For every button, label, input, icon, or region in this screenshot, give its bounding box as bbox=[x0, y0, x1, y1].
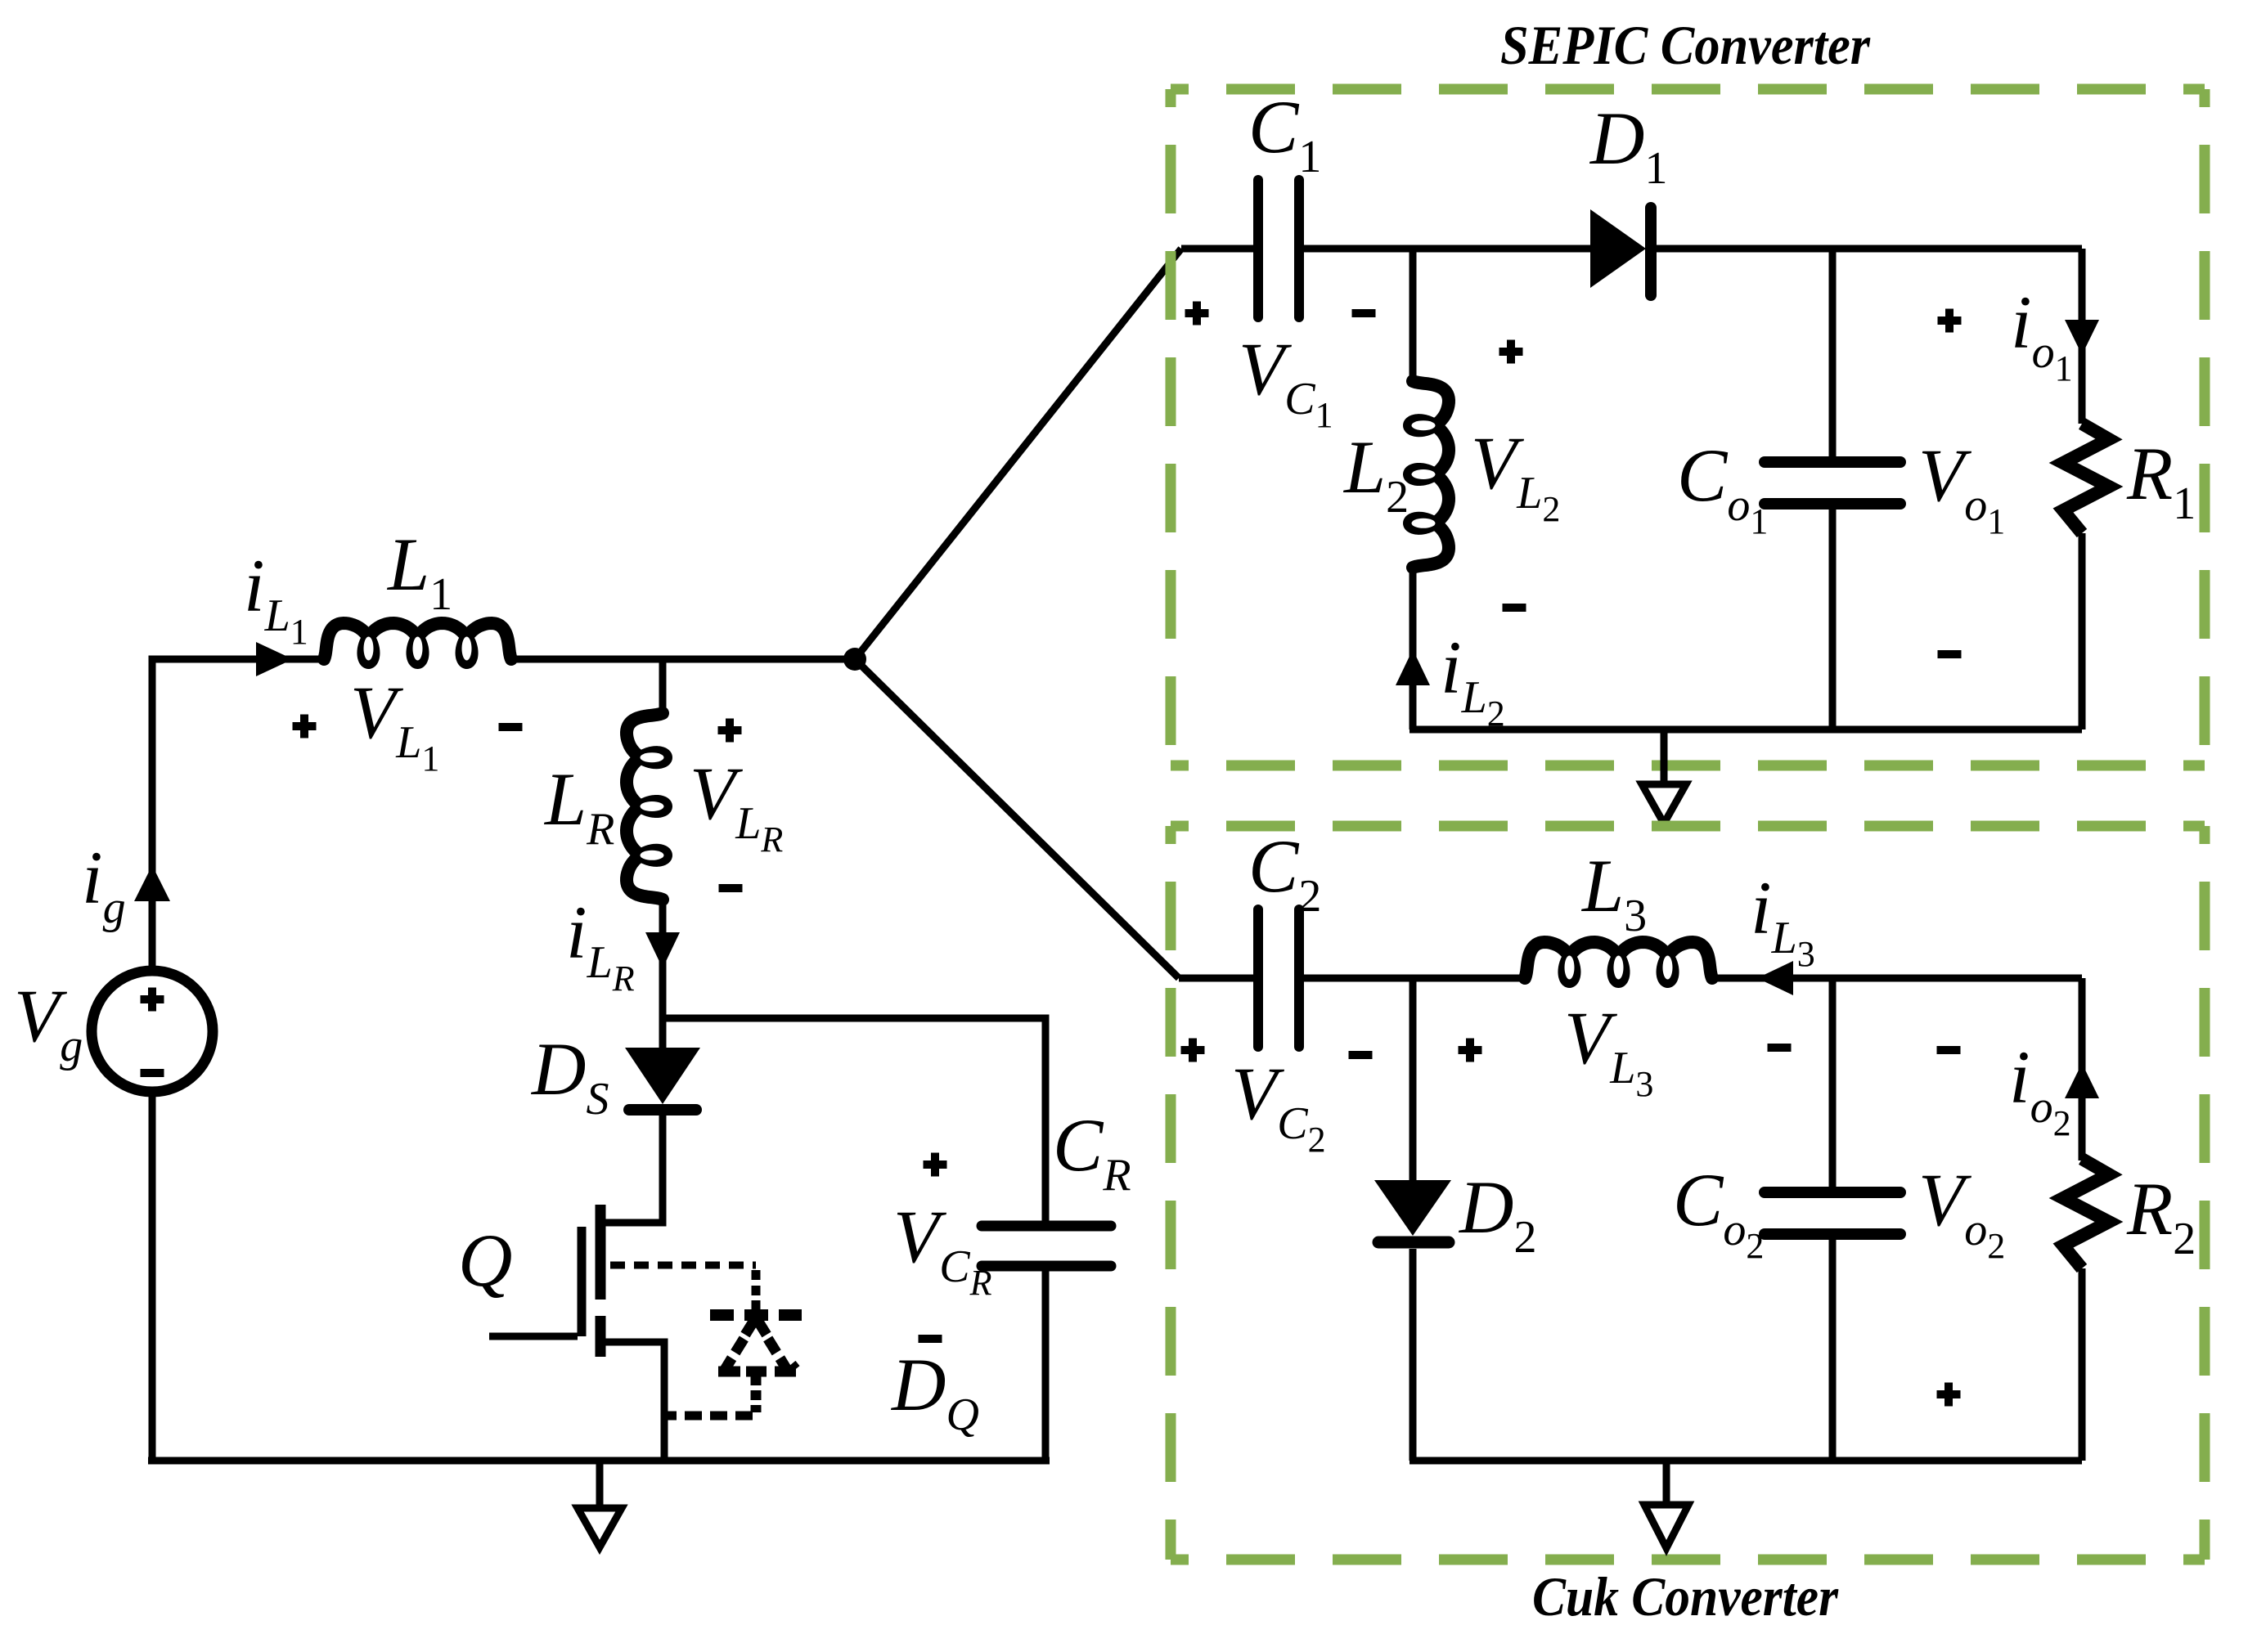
wire D2 branch upper bbox=[1409, 978, 1417, 1180]
resistor R2 bbox=[2063, 1159, 2109, 1268]
plus mark VL2 bbox=[1499, 348, 1523, 356]
ground symbol Cuk stub bbox=[1663, 1461, 1670, 1502]
diode D2 cathode bar bbox=[1378, 1237, 1449, 1249]
svg-text:Cuk Converter: Cuk Converter bbox=[1532, 1565, 1838, 1627]
wire right rail below R2 bbox=[2079, 1268, 2086, 1461]
plus mark VCR bbox=[924, 1160, 947, 1169]
current arrow iL1 bbox=[256, 642, 293, 676]
wire diagonal junction to SEPIC bbox=[855, 249, 1181, 659]
voltage source Vg symbol bbox=[92, 971, 213, 1092]
body diode DQ dashed gate link bbox=[610, 1262, 756, 1269]
svg-text:DS: DS bbox=[530, 1027, 609, 1125]
svg-text:VC2: VC2 bbox=[1231, 1052, 1326, 1160]
capacitor C1 left plate bbox=[1253, 180, 1263, 317]
svg-text:D2: D2 bbox=[1458, 1165, 1536, 1263]
Vg plus polarity mark bbox=[141, 995, 164, 1003]
minus mark VL2 bbox=[1503, 604, 1526, 612]
body diode DQ dashed triangle base bbox=[718, 1367, 740, 1377]
capacitor C2 right plate bbox=[1294, 909, 1304, 1047]
inductor L2 bbox=[1409, 381, 1449, 568]
capacitor CR top plate bbox=[982, 1221, 1111, 1232]
svg-text:Co1: Co1 bbox=[1677, 433, 1768, 541]
svg-text:iLR: iLR bbox=[566, 891, 635, 999]
diode DS triangle bbox=[625, 1048, 700, 1104]
svg-text:L2: L2 bbox=[1342, 425, 1409, 523]
wire Cuk bottom bbox=[1409, 1457, 2082, 1465]
capacitor C2 left plate bbox=[1253, 909, 1263, 1047]
wire L3 to right rail bbox=[1712, 975, 2082, 982]
wire CR to bottom rail bbox=[1042, 1271, 1050, 1461]
capacitor CR bottom plate bbox=[982, 1261, 1111, 1272]
current arrow iL3 bbox=[1757, 961, 1793, 995]
svg-text:Co2: Co2 bbox=[1673, 1158, 1764, 1266]
body diode DQ dashed triangle left leg bbox=[735, 1339, 744, 1353]
wire D2 to bottom bbox=[1409, 1249, 1417, 1461]
transistor Q gate bar bbox=[578, 1227, 587, 1336]
ground symbol SEPIC triangle bbox=[1642, 784, 1686, 824]
svg-text:io2: io2 bbox=[2009, 1035, 2071, 1143]
wire Co1 upper bbox=[1829, 249, 1837, 456]
wire SEPIC entry to C1 bbox=[1181, 245, 1255, 253]
ground symbol Cuk triangle bbox=[1644, 1505, 1688, 1548]
svg-text:iL2: iL2 bbox=[1441, 626, 1505, 734]
wire C1 to D1 bbox=[1302, 245, 1590, 253]
transistor Q channel bar upper bbox=[596, 1205, 606, 1300]
svg-text:R2: R2 bbox=[2126, 1167, 2196, 1264]
plus mark VLR bbox=[718, 726, 742, 734]
wire DS to MOSFET drain bbox=[605, 1116, 663, 1223]
wire SEPIC bottom corner bbox=[1409, 726, 1417, 729]
resistor R1 bbox=[2063, 424, 2109, 533]
svg-text:Q: Q bbox=[458, 1219, 512, 1302]
wire D1 to right rail bbox=[1656, 245, 2082, 253]
svg-text:Vg: Vg bbox=[14, 974, 83, 1071]
svg-text:L1: L1 bbox=[386, 523, 452, 620]
plus mark VL3 bbox=[1459, 1046, 1482, 1054]
svg-text:io1: io1 bbox=[2011, 281, 2073, 388]
capacitor Co1 top plate bbox=[1765, 456, 1900, 468]
wire right rail io1 bbox=[2079, 249, 2086, 424]
transistor Q gate lead bbox=[489, 1333, 578, 1340]
wire Co2 upper bbox=[1829, 978, 1837, 1187]
wire top from source corner bbox=[152, 659, 327, 662]
current arrow io2 bbox=[2065, 1063, 2099, 1098]
svg-text:R1: R1 bbox=[2126, 432, 2196, 529]
svg-text:Vo2: Vo2 bbox=[1918, 1158, 2005, 1266]
capacitor Co1 bottom plate bbox=[1765, 498, 1900, 510]
diode D2 triangle bbox=[1374, 1180, 1451, 1236]
Vg minus polarity mark bbox=[141, 1069, 164, 1077]
wire L2 lower bbox=[1409, 568, 1417, 729]
minus mark VL3 bbox=[1768, 1044, 1792, 1052]
capacitor Co2 bottom plate bbox=[1765, 1228, 1900, 1240]
body diode DQ dashed triangle right leg bbox=[768, 1339, 777, 1353]
wire right rail below R1 bbox=[2079, 533, 2086, 729]
wire left rail below Vg bbox=[149, 1092, 156, 1461]
transistor Q source lead bbox=[605, 1342, 664, 1461]
minus mark VL1 bbox=[499, 723, 523, 731]
svg-text:Vo1: Vo1 bbox=[1918, 433, 2005, 541]
current arrow iLR bbox=[645, 932, 680, 968]
wire bottom rail bbox=[148, 1457, 1050, 1465]
current arrow io1 bbox=[2065, 320, 2099, 355]
label DQ minus over D bbox=[919, 1335, 942, 1343]
plus mark VL1 bbox=[293, 722, 317, 730]
transistor Q channel bar lower bbox=[596, 1316, 606, 1357]
svg-text:VC1: VC1 bbox=[1239, 327, 1333, 435]
svg-text:D1: D1 bbox=[1589, 97, 1667, 194]
svg-text:VL2: VL2 bbox=[1471, 421, 1560, 529]
wire L1 to junction bbox=[509, 656, 855, 663]
svg-text:iL1: iL1 bbox=[244, 544, 308, 652]
inductor L3 bbox=[1525, 942, 1712, 981]
minus mark Vo1 bbox=[1938, 650, 1962, 658]
svg-text:VCR: VCR bbox=[893, 1195, 992, 1303]
wire LR to DS bbox=[659, 900, 667, 1048]
wire SEPIC bottom bbox=[1409, 726, 2082, 734]
wire C2 to L3 bbox=[1302, 975, 1525, 982]
ground symbol SEPIC stub bbox=[1661, 729, 1668, 781]
minus mark VLR bbox=[719, 884, 743, 892]
wire branch to CR bbox=[663, 1018, 1045, 1221]
svg-text:SEPIC Converter: SEPIC Converter bbox=[1500, 14, 1870, 76]
wire L2 branch upper bbox=[1409, 249, 1417, 383]
current arrow iL2 bbox=[1396, 649, 1430, 685]
wire junction column to LR bbox=[659, 659, 667, 715]
wire diagonal junction to Cuk bbox=[855, 659, 1179, 978]
capacitor Co2 top plate bbox=[1765, 1187, 1900, 1198]
plus mark VC2 bbox=[1181, 1046, 1205, 1054]
minus mark VC1 bbox=[1352, 309, 1376, 317]
plus mark VC1 bbox=[1185, 309, 1209, 317]
svg-text:LR: LR bbox=[543, 757, 614, 855]
svg-text:iL3: iL3 bbox=[1751, 866, 1815, 974]
wire Co1 lower bbox=[1829, 510, 1837, 729]
svg-text:VL3: VL3 bbox=[1564, 996, 1653, 1104]
svg-text:CR: CR bbox=[1053, 1103, 1131, 1201]
minus mark Vo2 bbox=[1937, 1046, 1961, 1054]
wire right rail io2 bbox=[2079, 978, 2086, 1160]
svg-text:VL1: VL1 bbox=[350, 671, 439, 779]
inductor L1 bbox=[324, 623, 511, 662]
current arrow ig bbox=[134, 865, 170, 901]
body diode DQ cathode bar dashed bbox=[710, 1309, 734, 1321]
svg-text:ig: ig bbox=[82, 836, 126, 933]
Cuk converter dashed box bbox=[1171, 821, 2205, 832]
ground symbol left stub bbox=[596, 1461, 604, 1505]
inductor LR bbox=[627, 713, 666, 900]
plus mark Vo1 bbox=[1938, 316, 1962, 325]
svg-text:VLR: VLR bbox=[690, 752, 783, 860]
capacitor C1 right plate bbox=[1294, 180, 1304, 317]
minus mark VC2 bbox=[1349, 1051, 1373, 1059]
wire Co2 lower bbox=[1829, 1240, 1837, 1461]
diode D1 cathode bar bbox=[1645, 208, 1657, 295]
wire Cuk entry to C2 bbox=[1179, 975, 1255, 982]
svg-text:DQ: DQ bbox=[890, 1343, 979, 1440]
svg-text:C2: C2 bbox=[1248, 824, 1321, 922]
wire left rail above Vg bbox=[149, 659, 156, 971]
diode DS cathode bar bbox=[629, 1104, 696, 1116]
body diode DQ dashed lower link bbox=[751, 1390, 762, 1400]
plus mark Vo2 bbox=[1937, 1390, 1961, 1398]
svg-text:C1: C1 bbox=[1248, 85, 1321, 182]
SEPIC converter dashed box bbox=[1171, 84, 2205, 95]
ground symbol left triangle bbox=[578, 1508, 622, 1547]
body diode DQ dashed triangle apex bbox=[745, 1318, 756, 1335]
node junction dot bbox=[843, 648, 866, 671]
svg-text:L3: L3 bbox=[1580, 844, 1647, 941]
diode D1 triangle bbox=[1590, 209, 1646, 288]
